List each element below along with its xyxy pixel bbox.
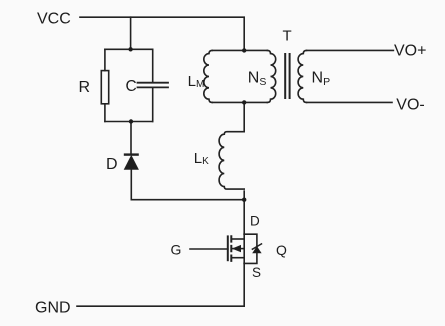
winding LM — [204, 50, 212, 102]
wire NS box bottom to LK — [243, 102, 245, 131]
wire LM-NS box bottom — [212, 101, 267, 103]
wire RC box top — [105, 48, 153, 50]
transistor Q MOSFET channel segments — [230, 236, 232, 261]
wire VCC rail — [80, 17, 244, 50]
label G gate — [171, 242, 182, 258]
label Q — [276, 242, 287, 258]
svg-text:C: C — [126, 78, 137, 95]
transistor Q MOSFET main vertical drain-source bar — [243, 234, 245, 263]
wire resistor leads — [104, 49, 106, 121]
svg-text:LM: LM — [188, 73, 205, 90]
svg-text:D: D — [106, 156, 118, 173]
label T — [283, 28, 292, 45]
svg-text:Q: Q — [276, 242, 287, 258]
transistor Q MOSFET gate electrode — [227, 236, 229, 260]
wire GND rail — [77, 305, 244, 307]
label VO+ — [394, 43, 426, 60]
wire from RC bottom to diode — [130, 122, 132, 153]
wire MOSFET source to GND rail — [243, 263, 245, 306]
transistor Q MOSFET drain lead — [231, 238, 244, 240]
wire LM-NS box top — [212, 49, 267, 51]
wire from diode down and right to drain node — [131, 169, 244, 200]
svg-text:VO-: VO- — [396, 96, 424, 113]
label D diode — [106, 156, 118, 173]
node junction NS bottom — [242, 100, 246, 104]
svg-text:S: S — [252, 265, 261, 280]
label S source — [252, 265, 261, 280]
svg-text:LK: LK — [194, 150, 209, 167]
label NP — [312, 70, 331, 88]
svg-text:G: G — [171, 242, 182, 258]
diode D — [125, 155, 139, 170]
svg-text:D: D — [250, 214, 260, 229]
transistor Q body diode — [252, 244, 261, 253]
label NS — [248, 70, 267, 88]
wire NP to VO- — [307, 101, 393, 103]
svg-text:NS: NS — [248, 70, 267, 88]
label VCC — [37, 11, 71, 28]
svg-text:NP: NP — [312, 70, 331, 88]
capacitor C — [138, 83, 169, 88]
wire capacitor leads — [152, 49, 154, 121]
winding NP — [298, 50, 306, 102]
svg-text:T: T — [283, 28, 292, 45]
svg-text:VCC: VCC — [37, 11, 71, 28]
node junction NS top — [242, 48, 246, 52]
label C — [126, 78, 137, 95]
winding LK — [219, 132, 244, 189]
label LK — [194, 150, 209, 167]
label D drain — [250, 214, 260, 229]
resistor R — [101, 71, 108, 104]
node junction drain — [242, 198, 246, 202]
transformer core T — [285, 54, 289, 98]
wire RC box bottom — [105, 121, 153, 123]
wire gate lead — [190, 248, 228, 250]
label GND — [35, 300, 71, 317]
wire drain node to MOSFET drain — [243, 200, 245, 235]
label R — [79, 79, 91, 96]
wire tee from VCC rail to RC snubber — [130, 17, 132, 49]
transistor Q body diode branch — [244, 234, 257, 263]
label LM — [188, 73, 205, 90]
transistor Q MOSFET body lead with arrow — [231, 246, 244, 252]
node junction RC top — [128, 47, 132, 51]
wire LK bottom to drain node — [243, 191, 245, 200]
node junction RC bottom — [129, 119, 133, 123]
svg-text:GND: GND — [35, 300, 71, 317]
wire NP to VO+ — [307, 49, 394, 51]
svg-text:R: R — [79, 79, 91, 96]
svg-text:VO+: VO+ — [394, 43, 426, 60]
label VO- — [396, 96, 424, 113]
transistor Q MOSFET source lead — [231, 257, 244, 259]
winding NS — [267, 50, 275, 102]
